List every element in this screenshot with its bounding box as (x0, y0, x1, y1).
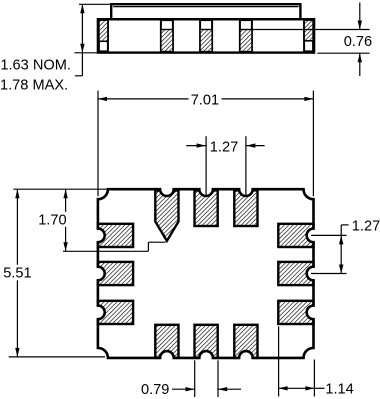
dimension 5.51 (16, 189, 18, 265)
svg-text:1.27: 1.27 (210, 140, 238, 156)
dimension 1.70 (65, 189, 67, 212)
pad right 2 (278, 262, 313, 285)
extension line bottom-left (9, 356, 105, 358)
left end metallization bar (side view) (99, 20, 108, 51)
pad left 3 (98, 301, 133, 324)
extension line top-left (shared 5.51 / 1.70) (13, 188, 107, 190)
svg-text:5.51: 5.51 (3, 266, 31, 282)
dimension 7.01 (97, 91, 99, 197)
pad right 3 (278, 301, 313, 324)
dimension 1.27 top (205, 136, 207, 195)
dimension 1.27 right (311, 234, 347, 236)
bottom pad 1 (side view) (161, 20, 173, 51)
package outline (bottom view) with castellation notches and cut corners (98, 189, 314, 358)
svg-text:1.14: 1.14 (325, 382, 353, 398)
svg-text:7.01: 7.01 (191, 92, 219, 108)
svg-text:1.78 MAX.: 1.78 MAX. (0, 77, 68, 93)
svg-text:0.79: 0.79 (141, 382, 169, 398)
bottom pad 2 (side view) (200, 20, 212, 51)
pad left 1 (98, 224, 133, 247)
pad right 1 (278, 224, 313, 247)
pad bottom-row 3 (234, 325, 257, 358)
bottom pad 3 (side view) (240, 20, 252, 51)
dimension 1.14 (278, 326, 280, 396)
svg-text:1.27: 1.27 (352, 219, 380, 235)
pad left 2 (98, 262, 133, 285)
dimension 0.79 (194, 360, 196, 397)
notch erasers (91, 182, 321, 365)
right end metallization bar (side view) (304, 20, 313, 51)
svg-text:1.70: 1.70 (38, 212, 66, 228)
pad 3 top (234, 190, 257, 226)
svg-text:1.63 NOM.: 1.63 NOM. (0, 58, 71, 74)
dimension 0.76 (252, 29, 370, 31)
pad 2 top (195, 190, 218, 226)
pad bottom-row 2 (195, 325, 218, 358)
1.70 jogged extension to pin-1 pad point (63, 250, 148, 252)
dimension 1.63 NOM / 1.78 MAX (79, 3, 111, 5)
package body (side view) (98, 19, 314, 52)
lid (side view) (111, 4, 300, 19)
pad 1 pin-1 marker (pentagon) (155, 191, 178, 241)
lid seam line (113, 6, 298, 8)
pad bottom-row 1 (155, 325, 178, 358)
svg-text:0.76: 0.76 (344, 34, 372, 50)
